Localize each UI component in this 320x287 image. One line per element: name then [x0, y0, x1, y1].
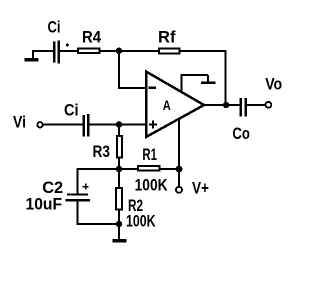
wire Vi to Ci input	[43, 123, 83, 125]
wire op-amp power down to V+ junction	[178, 118, 180, 169]
capacitor Co	[240, 98, 247, 117]
op-amp U1	[146, 72, 204, 138]
wire Ci to non-inverting input	[89, 123, 146, 125]
ground (bottom)	[113, 239, 127, 243]
node bottom junction	[116, 221, 123, 228]
capacitor C2	[66, 184, 91, 202]
node input junction	[116, 121, 123, 128]
svg-text:A: A	[163, 98, 171, 113]
capacitor C2 branch wires	[78, 168, 120, 225]
svg-text:Rf: Rf	[158, 28, 176, 46]
wire R1 to V+ junction	[161, 168, 179, 170]
wire R4 to Rf	[101, 50, 160, 52]
svg-text:R3: R3	[93, 143, 111, 161]
wire junction to V+ terminal	[178, 169, 180, 186]
resistor Rf	[159, 49, 180, 54]
svg-text:Co: Co	[232, 125, 250, 143]
svg-text:R4: R4	[82, 28, 102, 46]
terminal Vo	[266, 102, 272, 108]
svg-text:V+: V+	[192, 179, 209, 197]
svg-text:Vi: Vi	[13, 114, 26, 132]
svg-text:C2: C2	[42, 179, 63, 197]
svg-text:100K: 100K	[135, 176, 168, 194]
wire Co to Vo terminal	[247, 104, 266, 106]
resistor R2	[116, 188, 122, 210]
svg-text:Vo: Vo	[265, 76, 282, 94]
svg-text:100K: 100K	[126, 213, 156, 231]
svg-text:10uF: 10uF	[26, 196, 63, 214]
svg-text:Ci: Ci	[64, 101, 79, 119]
node R3/R1/C2 junction	[116, 166, 123, 173]
capacitor Ci (input)	[82, 114, 89, 137]
resistor R4	[78, 49, 100, 54]
wire R3 junction to R1	[119, 168, 138, 170]
wire Rf to output node (top and right vertical)	[181, 51, 227, 105]
svg-text:Ci: Ci	[48, 19, 61, 37]
node feedback junction	[116, 48, 122, 54]
wire feedback junction down to inverting input	[118, 51, 146, 88]
svg-text:R1: R1	[142, 146, 157, 164]
terminal Vi	[37, 122, 42, 127]
wire ground to Ci top	[32, 50, 54, 52]
wire op-amp output to Co	[204, 104, 240, 106]
wire Ci to R4	[60, 50, 79, 52]
node V+ junction	[176, 166, 183, 173]
capacitor Ci (top)	[53, 40, 69, 63]
resistor R3	[117, 136, 122, 158]
terminal V+	[176, 187, 182, 193]
ground (op-amp case)	[180, 75, 215, 93]
ground (top-left, input bias return)	[25, 51, 39, 62]
resistor R1	[138, 166, 160, 170]
node output junction	[223, 102, 229, 108]
wire input node down through R3 R2 to ground	[118, 125, 120, 240]
